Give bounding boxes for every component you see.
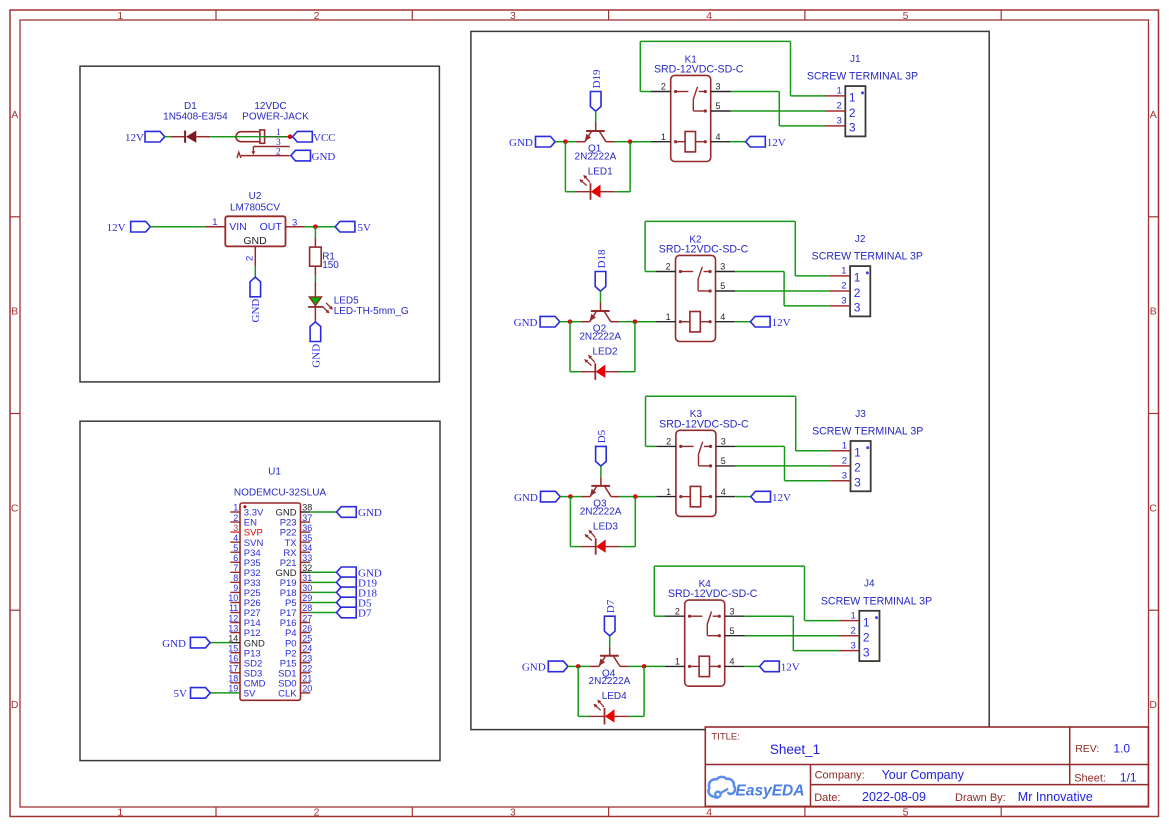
svg-text:D: D: [11, 699, 19, 711]
wire left leg to LED2 anode: [570, 371, 580, 373]
LED2 emission arrows: [589, 356, 594, 362]
power jack tip contact: [260, 130, 265, 143]
LED1 emission arrows: [585, 176, 590, 182]
ground flag (U1 pin 14): [190, 637, 210, 648]
svg-text:7: 7: [233, 563, 238, 573]
svg-text:Company:: Company:: [815, 770, 865, 782]
svg-text:1N5408-E3/54: 1N5408-E3/54: [163, 111, 228, 122]
svg-text:23: 23: [302, 653, 312, 663]
wire jog vertical: [778, 92, 780, 126]
svg-text:D7: D7: [358, 608, 372, 620]
Q3 emitter arrow: [590, 489, 596, 497]
svg-text:D7: D7: [605, 599, 617, 613]
wire D7 flag to Q4 base: [609, 636, 611, 647]
wire K3 pin5 to J3 pin 2: [736, 465, 831, 467]
LED LED2 cathode bar: [594, 363, 596, 380]
junction dot emitter node: [568, 319, 573, 324]
svg-text:2: 2: [276, 147, 281, 157]
svg-text:1: 1: [854, 446, 861, 460]
svg-text:SRD-12VDC-SD-C: SRD-12VDC-SD-C: [659, 418, 749, 430]
LED LED2 body (red): [596, 365, 606, 378]
K1 switch lever: [693, 87, 698, 100]
U1 pin 6 (P35): [230, 561, 240, 563]
relay K2 coil+contact body: [676, 255, 716, 341]
svg-text:12VDC: 12VDC: [254, 101, 286, 112]
svg-text:12: 12: [228, 613, 238, 623]
svg-text:5: 5: [720, 281, 725, 291]
U1 pin 2 (EN): [230, 521, 240, 523]
K2 pin 4 stub: [716, 321, 735, 323]
svg-text:1: 1: [276, 128, 281, 138]
J2 pin 2 stub: [830, 290, 850, 292]
wire K4 pin3 to jog: [745, 615, 794, 617]
ground flag (LED5): [310, 322, 321, 342]
svg-text:3: 3: [510, 10, 516, 22]
svg-text:25: 25: [302, 633, 312, 643]
svg-text:32: 32: [302, 563, 312, 573]
svg-text:Sheet:: Sheet:: [1074, 772, 1106, 784]
K4 coil left lead: [688, 665, 691, 668]
J1 polarity dot: [861, 91, 864, 94]
K4 coil body: [699, 656, 709, 676]
power supply section box: [80, 66, 439, 382]
svg-text:EasyEDA: EasyEDA: [736, 783, 805, 800]
svg-text:TITLE:: TITLE:: [711, 731, 740, 742]
diode D1 cathode lead: [171, 136, 185, 138]
wire top loop left vertical: [645, 396, 647, 446]
U1 pin 12 (P14): [230, 622, 240, 624]
K2 switch lever: [698, 267, 703, 280]
wire top loop left vertical: [653, 566, 655, 616]
svg-text:VIN: VIN: [229, 221, 247, 233]
wire emitter node to collector node (under Q4): [578, 665, 590, 667]
K3 lever to pin5 link: [698, 455, 700, 466]
LED LED1 cathode bar: [590, 183, 592, 200]
wire collector node to relay K2 pin 1: [635, 321, 656, 323]
transistor Q4 body: [600, 655, 619, 657]
U1 pin 16 (SD2): [230, 662, 240, 664]
K2 contact common dot pin2: [679, 270, 682, 273]
relay K4 coil+contact body: [685, 600, 725, 686]
svg-text:34: 34: [302, 543, 312, 553]
net flag D5 (U1): [337, 597, 357, 608]
svg-text:LED2: LED2: [592, 346, 617, 357]
svg-text:4: 4: [233, 533, 238, 543]
U2 pin 1 lead: [205, 226, 225, 228]
svg-text:2: 2: [849, 106, 856, 120]
svg-text:3: 3: [849, 121, 856, 135]
svg-text:1: 1: [666, 487, 671, 497]
net flag D7 (U1): [337, 607, 357, 618]
wire R1 to LED5: [314, 275, 316, 282]
LED1 cathode lead: [576, 191, 591, 193]
junction dot VCC node: [288, 134, 293, 139]
svg-text:C: C: [1149, 503, 1157, 515]
net flag GND (U1): [337, 567, 357, 578]
svg-text:1: 1: [841, 266, 846, 277]
LED1 anode lead: [601, 191, 615, 193]
ground flag (Q3 emitter): [541, 491, 561, 502]
K2 contact dot pin3: [709, 270, 712, 273]
net flag 12V (K4): [760, 661, 780, 672]
net flag VCC: [293, 131, 313, 142]
title block row divider 2: [811, 784, 1149, 786]
svg-text:NODEMCU-32SLUA: NODEMCU-32SLUA: [234, 487, 327, 498]
connector J2 body: [850, 266, 870, 316]
wire 12V to U2 pin 1: [150, 226, 205, 228]
svg-text:Drawn By:: Drawn By:: [955, 792, 1006, 804]
K1 contact dot pin3: [704, 90, 707, 93]
svg-text:U1: U1: [268, 466, 281, 477]
wire emitter node down to LED1: [564, 142, 566, 192]
wire top loop to J3 pin 1: [796, 450, 831, 452]
svg-text:D19: D19: [591, 69, 603, 88]
wire D19 flag to Q1 base: [595, 111, 597, 122]
frame row ticks: [10, 216, 20, 218]
svg-text:J1: J1: [850, 54, 861, 65]
J2 polarity dot: [866, 271, 869, 274]
svg-text:LED1: LED1: [588, 166, 613, 177]
svg-text:27: 27: [302, 613, 312, 623]
LED5 cathode bar: [308, 306, 323, 308]
svg-text:1: 1: [117, 10, 123, 22]
svg-text:3: 3: [854, 476, 861, 490]
wire K4 pin4 to 12V flag: [744, 665, 760, 667]
K4 pin 2 stub: [665, 615, 685, 617]
J1 pin 1 stub: [825, 95, 845, 97]
svg-text:2: 2: [245, 256, 256, 261]
svg-text:2: 2: [854, 461, 861, 475]
svg-text:28: 28: [302, 603, 312, 613]
U1 pin 31 (P19): [301, 581, 311, 583]
wire K1 pin2 to top loop: [640, 91, 651, 93]
wire 5V node down to R1: [314, 227, 316, 238]
power jack pin 2 lead with spring contact: [237, 152, 241, 158]
LED2 anode lead: [605, 371, 619, 373]
U1 pin 13 (P12): [230, 632, 240, 634]
svg-text:4: 4: [706, 806, 712, 818]
wire jog to J4 pin 3: [793, 650, 839, 652]
U1 pin 29 (P5): [301, 601, 311, 603]
K2 pin 3 stub: [716, 271, 736, 273]
wire K2 pin3 to jog: [735, 271, 784, 273]
diode D1 anode lead: [196, 136, 210, 138]
net flag 5V (U1 pin 19): [191, 688, 211, 699]
wire emitter node down to LED4: [577, 666, 579, 716]
connector J4 body: [859, 611, 879, 661]
K3 contact dot pin3: [709, 445, 712, 448]
junction dot collector node: [633, 319, 638, 324]
svg-text:33: 33: [302, 553, 312, 563]
svg-text:SCREW TERMINAL 3P: SCREW TERMINAL 3P: [812, 251, 923, 263]
K1 contact common dot pin2: [674, 90, 677, 93]
K1 pin 3 stub: [711, 91, 731, 93]
svg-text:17: 17: [228, 664, 238, 674]
wire D1 to power jack: [210, 136, 236, 138]
svg-text:SRD-12VDC-SD-C: SRD-12VDC-SD-C: [654, 64, 744, 76]
U1 pin 32 (GND): [301, 571, 311, 573]
diode D1 body: [184, 131, 186, 143]
junction dot collector node: [628, 139, 633, 144]
power jack pin 1 lead: [265, 136, 291, 138]
svg-text:SCREW TERMINAL 3P: SCREW TERMINAL 3P: [821, 595, 932, 607]
relay K1 coil+contact body: [671, 75, 711, 161]
svg-text:29: 29: [302, 593, 312, 603]
wire K1 pin5 to J1 pin 2: [731, 110, 826, 112]
EasyEDA logo cloud: [708, 777, 735, 797]
svg-text:GND: GND: [243, 235, 267, 247]
J4 pin 3 stub: [839, 650, 859, 652]
frame column ticks: [215, 10, 217, 20]
J1 pin 2 stub: [825, 110, 845, 112]
U2 pin 3 lead: [286, 226, 305, 228]
U2 pin 2 lead down: [254, 246, 256, 266]
LED4 cathode lead: [590, 715, 605, 717]
svg-text:12V: 12V: [781, 662, 800, 674]
svg-text:5V: 5V: [244, 689, 256, 700]
J3 pin 3 stub: [830, 480, 850, 482]
svg-text:GND: GND: [312, 151, 336, 163]
wire emitter node to collector node (under Q3): [570, 496, 581, 498]
svg-text:1/1: 1/1: [1120, 770, 1137, 784]
svg-text:10: 10: [228, 593, 238, 603]
transistor Q1 body: [586, 130, 605, 132]
wire K4 pin5 to J4 pin 2: [745, 635, 840, 637]
wire K4 pin2 to top loop: [654, 615, 665, 617]
K3 contact common dot pin2: [679, 445, 682, 448]
U1 pin 23 (P15): [301, 662, 311, 664]
svg-text:GND: GND: [509, 137, 533, 149]
wire top loop left vertical: [644, 221, 646, 271]
svg-text:1: 1: [842, 441, 847, 452]
junction dot emitter node: [576, 664, 581, 669]
K3 pin 3 stub: [716, 445, 736, 447]
U1 pin 11 (P27): [230, 612, 240, 614]
LED LED4 cathode bar: [604, 708, 606, 725]
relay K3 coil+contact body: [676, 430, 716, 516]
svg-text:12V: 12V: [772, 492, 791, 504]
K4 lever to pin5 link: [706, 625, 708, 636]
K3 NO contact stub: [704, 445, 710, 447]
K1 pin 4 stub: [711, 141, 730, 143]
wire top loop right vertical: [795, 396, 797, 451]
net flag D5 (base of Q3): [596, 446, 607, 466]
wire collector node to relay K1 pin 1: [630, 141, 651, 143]
wire U1 to net flag D7: [310, 612, 336, 614]
K4 contact common dot pin2: [688, 615, 691, 618]
svg-text:2N2222A: 2N2222A: [575, 151, 617, 162]
svg-text:15: 15: [228, 643, 238, 653]
J1 pin 3 stub: [825, 125, 845, 127]
net flag 12V (U2 input): [131, 221, 151, 232]
K2 coil left lead: [679, 320, 682, 323]
svg-text:2: 2: [314, 806, 320, 818]
wire jog to J3 pin 3: [785, 480, 831, 482]
K4 pin 1 stub: [665, 665, 685, 667]
svg-text:3: 3: [837, 116, 842, 127]
svg-text:2: 2: [666, 437, 671, 447]
svg-text:21: 21: [302, 674, 312, 684]
svg-text:26: 26: [302, 623, 312, 633]
ground flag (Q2 emitter): [540, 316, 560, 327]
relay driver section box: [471, 31, 989, 729]
svg-text:GND: GND: [162, 638, 186, 650]
K2 contact dot pin5: [709, 289, 712, 292]
wire collector node down to LED3: [634, 497, 636, 547]
K2 contact line: [682, 271, 693, 273]
svg-text:A: A: [1150, 109, 1157, 121]
mcu section box: [80, 421, 440, 760]
net flag D19 (base of Q1): [590, 92, 601, 112]
svg-text:1.0: 1.0: [1113, 742, 1130, 756]
net flag D18 (U1): [337, 587, 357, 598]
J3 pin 2 stub: [830, 465, 850, 467]
svg-text:5: 5: [903, 10, 909, 22]
svg-text:3: 3: [720, 262, 725, 272]
svg-text:D18: D18: [596, 249, 608, 268]
wire top loop horizontal: [640, 40, 790, 42]
U1 pin 35 (TX): [301, 541, 311, 543]
LED5 anode lead: [314, 282, 316, 298]
svg-text:Date:: Date:: [814, 792, 840, 804]
wire LED4 cathode to right leg: [629, 715, 644, 717]
svg-text:35: 35: [302, 533, 312, 543]
wire LED3 cathode to right leg: [620, 546, 635, 548]
U1 pin 15 (P13): [230, 652, 240, 654]
connector CN power jack barrel: [236, 132, 260, 142]
K2 coil right lead: [700, 321, 709, 323]
K1 pin 5 stub: [711, 110, 731, 112]
wire K2 pin5 to J2 pin 2: [735, 290, 830, 292]
svg-text:1: 1: [837, 86, 842, 97]
wire U2 out to 5V node: [305, 226, 336, 228]
svg-text:3: 3: [292, 217, 297, 228]
wire collector node down to LED2: [634, 322, 636, 372]
svg-text:3: 3: [716, 82, 721, 92]
svg-text:16: 16: [228, 653, 238, 663]
K4 pin 5 stub: [725, 635, 745, 637]
LED LED3 body (red): [596, 539, 606, 552]
wire top loop to J1 pin 1: [791, 95, 826, 97]
svg-text:REV:: REV:: [1075, 743, 1099, 755]
connector J3 body: [851, 441, 871, 491]
junction dot collector node: [633, 494, 638, 499]
svg-text:2: 2: [314, 10, 320, 22]
wire LED1 cathode to right leg: [615, 191, 630, 193]
svg-text:SRD-12VDC-SD-C: SRD-12VDC-SD-C: [668, 588, 758, 600]
K2 pin 1 stub: [656, 321, 676, 323]
wire K1 pin3 to jog: [731, 91, 780, 93]
svg-text:VCC: VCC: [313, 132, 336, 144]
wire K2 pin2 to top loop: [645, 271, 656, 273]
svg-text:20: 20: [302, 684, 312, 694]
wire top loop horizontal: [654, 565, 804, 567]
svg-text:4: 4: [720, 312, 725, 322]
svg-text:3: 3: [863, 645, 870, 659]
K3 coil right lead: [701, 496, 710, 498]
title block rev cell divider: [1069, 727, 1071, 785]
wire emitter node to collector node (under Q2): [570, 321, 581, 323]
svg-text:1: 1: [849, 91, 856, 105]
svg-text:2: 2: [841, 281, 846, 292]
svg-text:5V: 5V: [358, 222, 372, 234]
svg-text:J2: J2: [855, 234, 866, 245]
U1 pin 21 (SD0): [301, 682, 311, 684]
Q4 base lead: [609, 647, 611, 655]
svg-text:1: 1: [661, 132, 666, 142]
U1 pin 34 (RX): [301, 551, 311, 553]
junction dot emitter node: [568, 494, 573, 499]
transistor Q2 body: [591, 310, 610, 312]
wire jog to J2 pin 3: [784, 305, 830, 307]
U1 pin 30 (P18): [301, 591, 311, 593]
svg-text:D5: D5: [596, 429, 608, 443]
svg-text:19: 19: [228, 684, 238, 694]
svg-text:3: 3: [854, 301, 861, 315]
U1 pin 33 (P21): [301, 561, 311, 563]
K4 contact line: [691, 615, 702, 617]
U1 pin 20 (CLK): [301, 692, 311, 694]
U1 pin 18 (CMD): [230, 682, 240, 684]
svg-text:6: 6: [233, 553, 238, 563]
svg-text:B: B: [1150, 306, 1157, 318]
wire GND flag to emitter node: [560, 321, 570, 323]
svg-text:2N2222A: 2N2222A: [579, 331, 621, 342]
resistor R1 body: [310, 247, 322, 266]
J4 polarity dot: [875, 616, 878, 619]
svg-text:1: 1: [233, 503, 238, 513]
svg-text:GND: GND: [250, 299, 262, 323]
LED5 cathode lead: [314, 307, 316, 322]
svg-text:12V: 12V: [767, 137, 786, 149]
wire D18 flag to Q2 base: [600, 291, 602, 302]
svg-text:2: 2: [233, 513, 238, 523]
svg-text:22: 22: [302, 664, 312, 674]
J4 pin 2 stub: [839, 635, 859, 637]
svg-text:1: 1: [863, 615, 870, 629]
net flag D18 (base of Q2): [595, 272, 606, 292]
net flag 12V (K3): [751, 491, 771, 502]
U1 pin 9 (P25): [230, 591, 240, 593]
U1 pin 25 (P0): [301, 642, 311, 644]
U1 pin 22 (SD1): [301, 672, 311, 674]
svg-text:3: 3: [730, 606, 735, 616]
svg-text:D1: D1: [184, 101, 197, 112]
wire top loop to J4 pin 1: [805, 620, 840, 622]
wire GND flag to emitter node: [568, 665, 578, 667]
svg-text:11: 11: [229, 603, 238, 613]
net flag 12V (K2): [750, 316, 770, 327]
svg-text:1: 1: [851, 610, 856, 621]
wire left leg to LED1 anode: [565, 191, 575, 193]
svg-text:5: 5: [233, 543, 238, 553]
Q1 emitter arrow: [585, 134, 591, 142]
wire collector node to relay K4 pin 1: [644, 665, 665, 667]
Q2 emitter arrow: [590, 314, 596, 322]
svg-text:LED3: LED3: [593, 521, 618, 532]
net flag 5V (U2 out): [335, 221, 355, 232]
wire jog vertical: [792, 616, 794, 650]
LED LED5 body (green): [309, 297, 321, 306]
svg-text:GND: GND: [311, 344, 323, 368]
K3 contact dot pin5: [709, 464, 712, 467]
K1 pin 2 stub: [651, 91, 671, 93]
wire GND flag to emitter node: [560, 496, 570, 498]
svg-text:Your Company: Your Company: [882, 768, 965, 782]
LED5 emission arrows: [323, 307, 329, 313]
svg-text:36: 36: [302, 523, 312, 533]
U1 pin 14 (GND): [230, 642, 240, 644]
